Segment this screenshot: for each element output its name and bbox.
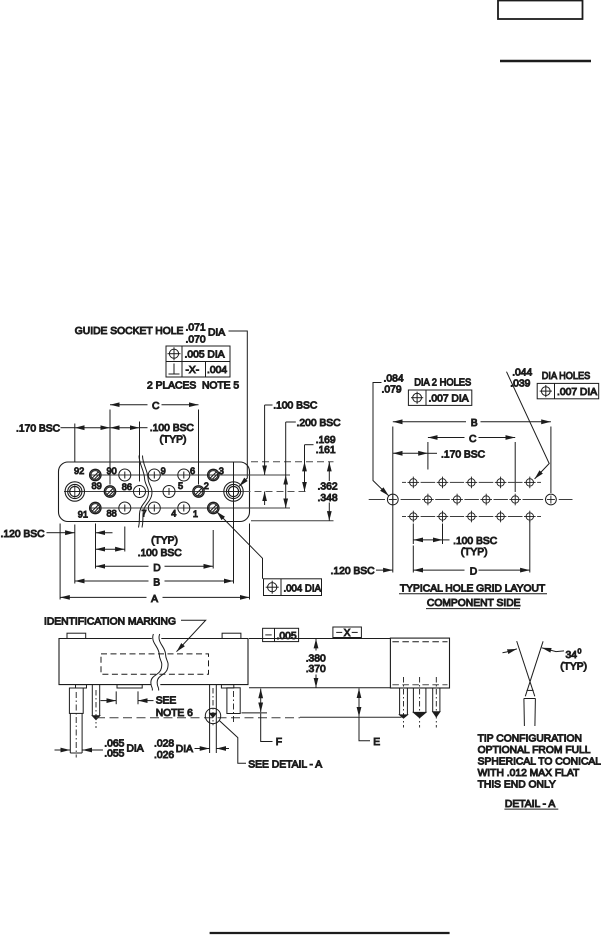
detail balloon circle — [205, 708, 220, 723]
svg-text:WITH .012 MAX FLAT: WITH .012 MAX FLAT — [478, 768, 580, 779]
dimension SEE NOTE 6 — [115, 691, 117, 704]
svg-text:.161: .161 — [316, 445, 336, 456]
detail A shoulder — [524, 698, 536, 700]
socket hole 5 — [163, 486, 175, 498]
socket hole 3 (hatched) — [208, 469, 219, 480]
bottom edge extension — [251, 520, 334, 522]
dimension A — [60, 596, 146, 598]
svg-text:DIA: DIA — [176, 744, 193, 755]
svg-text:SEE: SEE — [156, 696, 177, 707]
grid holes row 3 — [408, 511, 536, 523]
side view top tab left — [67, 633, 86, 638]
terminal pin centerline — [212, 688, 214, 725]
row 3 centerline — [89, 507, 290, 509]
extension line below col 1 — [212, 530, 214, 569]
socket hole 2 (hatched) — [193, 486, 204, 497]
grid row centerlines — [402, 481, 541, 483]
dimension B (grid) — [393, 421, 466, 423]
svg-text:.120 BSC: .120 BSC — [1, 529, 46, 540]
feature control frame: position .005 DIA over perpendicularity -X- .004 — [166, 346, 230, 377]
datum flag -X- — [333, 627, 362, 638]
svg-text:.039: .039 — [510, 378, 530, 389]
extension line below right edge — [249, 524, 251, 600]
socket hole 89 (hatched) — [104, 486, 115, 497]
svg-text:.079: .079 — [382, 384, 402, 395]
end view top dashed line — [392, 641, 447, 643]
extension line guide socket col — [74, 424, 76, 462]
extension line col 86 — [139, 422, 141, 482]
svg-text:.084: .084 — [384, 374, 404, 385]
socket hole 90 — [119, 469, 131, 481]
svg-text:B: B — [153, 577, 160, 588]
svg-text:(TYP): (TYP) — [160, 435, 187, 446]
svg-text:D: D — [470, 567, 477, 578]
top edge dashed extension — [251, 461, 334, 463]
svg-text:6: 6 — [190, 466, 195, 476]
detail A cone construction line left — [517, 641, 535, 696]
svg-text:91: 91 — [78, 510, 88, 520]
svg-text:(TYP): (TYP) — [151, 536, 178, 547]
svg-text:.007 DIA: .007 DIA — [557, 387, 597, 398]
guide pin left centerline — [75, 692, 77, 758]
svg-text:TYPICAL HOLE GRID LAYOUT: TYPICAL HOLE GRID LAYOUT — [400, 584, 546, 595]
socket hole 9 — [148, 469, 160, 481]
detail A tip flat — [527, 689, 534, 691]
svg-text:2: 2 — [204, 481, 209, 491]
svg-text:DIA: DIA — [127, 743, 144, 754]
row 2 centerline dashed extension — [244, 491, 310, 493]
svg-text:5: 5 — [178, 481, 183, 491]
svg-text:.100 BSC: .100 BSC — [138, 548, 183, 559]
dimension C (grid) — [428, 437, 465, 439]
svg-text:DIA: DIA — [208, 328, 225, 339]
svg-text:IDENTIFICATION MARKING: IDENTIFICATION MARKING — [44, 616, 176, 627]
svg-text:NOTE 6: NOTE 6 — [156, 708, 193, 719]
end view pin 2 (guide pin) — [412, 688, 414, 712]
header box (empty title block) — [498, 1, 583, 20]
svg-text:TIP CONFIGURATION: TIP CONFIGURATION — [478, 733, 582, 744]
dimension .170 BSC (grid) — [393, 452, 428, 454]
standoff pad middle — [117, 685, 142, 688]
guide pin right (wide section) — [227, 688, 240, 714]
body top extension line — [249, 638, 390, 640]
detail A pin body — [523, 699, 526, 727]
body bottom extension line — [249, 687, 390, 689]
svg-text:2 PLACES NOTE 5: 2 PLACES NOTE 5 — [147, 381, 239, 392]
contact pin left centerline — [95, 690, 97, 728]
svg-text:SPHERICAL TO CONICAL: SPHERICAL TO CONICAL — [478, 756, 601, 767]
terminal pin tip (inside balloon) — [210, 713, 217, 717]
extension line below col 88 — [124, 527, 126, 552]
guide pin left (lower section) — [69, 713, 71, 753]
svg-text:.004: .004 — [207, 365, 227, 376]
leader SEE DETAIL - A — [219, 721, 246, 764]
extension line col 2 — [198, 410, 200, 485]
dimension .100 BSC (TYP) top — [110, 427, 140, 429]
extension line below left edge — [59, 524, 61, 600]
leader identification marking — [177, 620, 206, 652]
break line left — [139, 456, 149, 528]
terminal pin right — [209, 685, 211, 753]
svg-text:90: 90 — [107, 466, 117, 476]
dimension D (grid) — [412, 546, 414, 573]
svg-text:.348: .348 — [318, 493, 338, 504]
dimension E bracket — [359, 717, 370, 740]
svg-text:.005: .005 — [277, 631, 297, 642]
row 2 centerline — [64, 491, 243, 493]
shoulder extension line — [242, 712, 268, 714]
guide socket left — [65, 482, 84, 501]
grid hole big right — [546, 494, 557, 505]
svg-text:F: F — [276, 737, 282, 748]
guide pin left (wide section) — [69, 688, 83, 713]
svg-text:C: C — [469, 434, 477, 445]
feature frame straightness .005 — [263, 628, 299, 641]
guide socket right — [224, 482, 243, 501]
socket hole 92 (hatched) — [90, 469, 101, 480]
dimension D — [96, 565, 149, 567]
svg-text:.005 DIA: .005 DIA — [185, 350, 225, 361]
leader .044 holes — [507, 372, 550, 479]
svg-text:1: 1 — [193, 509, 198, 519]
svg-text:.370: .370 — [306, 664, 326, 675]
side view break line right — [157, 634, 168, 691]
socket hole 86 — [134, 486, 146, 498]
svg-text:.100 BSC: .100 BSC — [273, 401, 318, 412]
svg-text:.100 BSC: .100 BSC — [453, 536, 498, 547]
standoff pad right — [221, 685, 233, 688]
svg-text:DIA 2 HOLES: DIA 2 HOLES — [414, 378, 471, 389]
svg-text:C: C — [152, 401, 160, 412]
svg-text:7: 7 — [142, 509, 147, 519]
leader from DIA to right guide socket — [229, 331, 248, 486]
svg-text:.004 DIA: .004 DIA — [284, 583, 322, 594]
svg-text:3: 3 — [219, 466, 224, 476]
svg-text:9: 9 — [161, 466, 166, 476]
svg-text:.170 BSC: .170 BSC — [441, 449, 486, 460]
svg-text:SEE DETAIL - A: SEE DETAIL - A — [248, 760, 322, 771]
pin tip reference line (dashed) — [96, 717, 300, 719]
svg-text:THIS END ONLY: THIS END ONLY — [478, 780, 556, 791]
header underline — [500, 60, 591, 62]
svg-text:A: A — [151, 594, 158, 605]
socket hole 6 — [178, 469, 190, 481]
svg-text:.007 DIA: .007 DIA — [429, 394, 469, 405]
feature control frame .007 DIA (left) — [408, 390, 471, 405]
footer rule — [210, 932, 450, 934]
break line right — [142, 456, 152, 528]
leader from contact 1 to true position frame — [217, 512, 263, 579]
detail A cone construction line right — [525, 641, 543, 696]
socket hole 7 — [148, 502, 160, 514]
svg-text:.071: .071 — [186, 323, 206, 334]
dimension E arrows — [358, 688, 360, 700]
socket hole 88 — [119, 502, 131, 514]
svg-text:89: 89 — [92, 481, 102, 491]
feature control frame .007 DIA (right) — [537, 383, 599, 398]
angle arrow right with leader to 34 deg — [542, 648, 564, 652]
grid extension lines — [392, 427, 394, 573]
angle arrow left — [503, 649, 517, 653]
svg-text:34: 34 — [566, 650, 578, 661]
extension line below guide socket right — [233, 462, 235, 584]
end view pin 3 — [432, 688, 434, 712]
face view outline (connector body, mating face) — [59, 462, 250, 522]
svg-text:(TYP): (TYP) — [560, 661, 587, 672]
contact pin left — [91, 685, 93, 716]
svg-text:X: X — [344, 628, 351, 639]
svg-text:.362: .362 — [318, 481, 338, 492]
dimension .100 BSC (TYP) grid bottom — [412, 524, 414, 545]
row 1 centerline — [89, 474, 290, 476]
extension line below guide socket left — [74, 525, 76, 584]
identification marking zone (dashed) — [101, 654, 209, 674]
guide pin right centerline — [233, 691, 235, 723]
dimension C (top) — [110, 404, 148, 406]
dimension B — [75, 580, 149, 582]
svg-text:E: E — [373, 737, 380, 748]
svg-text:GUIDE SOCKET HOLE: GUIDE SOCKET HOLE — [75, 326, 184, 337]
grid holes row 1 — [408, 477, 536, 489]
svg-text:.100 BSC: .100 BSC — [150, 423, 195, 434]
svg-text:.200 BSC: .200 BSC — [297, 418, 342, 429]
socket hole 4 — [178, 502, 190, 514]
svg-text:86: 86 — [122, 482, 132, 492]
side view break line left — [151, 634, 162, 691]
grid hole big left — [387, 494, 398, 505]
svg-text:D: D — [153, 563, 160, 574]
svg-text:.044: .044 — [512, 367, 532, 378]
svg-text:.070: .070 — [186, 335, 206, 346]
svg-text:COMPONENT SIDE: COMPONENT SIDE — [427, 598, 521, 609]
perpendicularity symbol row2 — [173, 364, 175, 375]
extension line col 89 — [109, 410, 111, 485]
end view bottom dashed line — [392, 684, 447, 686]
svg-text:.028: .028 — [154, 738, 174, 749]
svg-text:(TYP): (TYP) — [461, 547, 488, 558]
svg-text:.120 BSC: .120 BSC — [331, 566, 376, 577]
svg-text:.170 BSC: .170 BSC — [16, 423, 61, 434]
svg-text:OPTIONAL FROM FULL: OPTIONAL FROM FULL — [478, 745, 591, 756]
side view body — [59, 639, 152, 685]
dimension F bracket — [261, 714, 273, 742]
socket hole 1 (hatched) — [208, 502, 219, 513]
svg-text:.026: .026 — [154, 750, 174, 761]
end view pin 1 — [399, 688, 401, 715]
side view top tab right — [222, 633, 241, 638]
dimension F arrows — [260, 689, 262, 700]
svg-text:92: 92 — [74, 466, 84, 476]
grid holes row 2 — [422, 494, 521, 506]
standoff pad left — [76, 685, 87, 688]
svg-text:DIA HOLES: DIA HOLES — [542, 371, 591, 382]
position symbol row1 — [169, 349, 178, 358]
extension line below col 91 — [95, 524, 97, 569]
svg-text:4: 4 — [171, 509, 176, 519]
socket hole 91 (hatched) — [90, 502, 101, 513]
end view body — [390, 638, 449, 688]
svg-text:B: B — [471, 418, 478, 429]
leader .084 holes — [373, 383, 389, 496]
svg-text:DETAIL - A: DETAIL - A — [505, 799, 555, 810]
svg-text:88: 88 — [107, 509, 117, 519]
feature control frame .004 DIA — [264, 579, 322, 596]
svg-text:0: 0 — [578, 649, 582, 656]
svg-text:-X-: -X- — [186, 365, 200, 376]
svg-text:.055: .055 — [104, 748, 124, 759]
